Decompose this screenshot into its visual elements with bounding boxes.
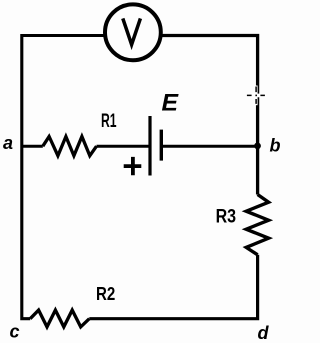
wire: battery to node b [161, 145, 257, 148]
voltmeter letter V [123, 18, 141, 44]
resistor R3 zigzag [246, 195, 268, 255]
battery E long plate [148, 116, 151, 176]
svg-text:R1: R1 [101, 111, 117, 132]
crosshair cursor [246, 86, 266, 106]
wire: outer loop (top, left, bottom, right sides) [162, 36, 258, 195]
battery E short plate [160, 130, 163, 161]
wire: middle branch left (node a to R1) [22, 145, 43, 148]
resistor R1 zigzag [43, 137, 97, 156]
wire: bottom-left corner up left side to top-left and to voltmeter [22, 36, 104, 319]
svg-text:R3: R3 [216, 207, 237, 228]
node b junction dot [254, 143, 261, 150]
resistor R2 zigzag [30, 310, 89, 327]
wire: R1 to battery plate [97, 145, 149, 148]
svg-text:c: c [10, 322, 20, 342]
svg-text:b: b [270, 135, 281, 155]
battery plus sign [124, 157, 142, 175]
wire: right side below R3 down to corner d [89, 255, 257, 319]
svg-text:d: d [258, 323, 270, 343]
voltmeter U1 circle [105, 4, 161, 60]
svg-text:a: a [3, 133, 13, 153]
svg-text:E: E [162, 89, 180, 116]
svg-text:R2: R2 [96, 284, 115, 304]
